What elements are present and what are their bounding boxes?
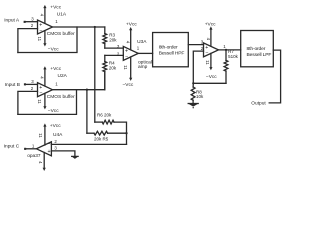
wire common vertical to U4A pin 2 <box>51 143 126 145</box>
op-amp U4A <box>36 142 51 156</box>
-Vcc supply U4A <box>43 153 46 172</box>
+Vcc supply U4A <box>43 123 46 145</box>
wire U1A feedback pin2-left <box>18 29 38 53</box>
resistor R3 <box>103 27 107 48</box>
resistor R6 <box>102 120 114 124</box>
wire Input B to U2A pin 3 <box>26 83 38 85</box>
svg-text:510k: 510k <box>228 54 239 59</box>
node U1A output junction <box>94 26 96 28</box>
+Vcc supply U2A <box>43 66 46 86</box>
svg-text:U2A: U2A <box>58 73 68 79</box>
svg-text:20k: 20k <box>109 66 117 71</box>
svg-text:8th-order: 8th-order <box>159 45 178 51</box>
svg-text:−Vcc: −Vcc <box>48 108 59 114</box>
svg-text:1: 1 <box>32 144 35 149</box>
svg-text:U4A: U4A <box>53 132 63 138</box>
input terminal C <box>24 148 26 150</box>
svg-text:−: − <box>39 28 42 34</box>
ground (U4A pin 3) <box>72 156 78 159</box>
wire U3A output to HPF <box>138 52 152 54</box>
svg-text:+Vcc: +Vcc <box>126 22 137 28</box>
wire U3A pin 2 <box>105 54 124 56</box>
svg-text:20k: 20k <box>109 37 117 42</box>
wire R5 right lead <box>108 132 127 134</box>
svg-text:amp: amp <box>138 65 148 70</box>
wire U4A pin 3 to ground <box>51 151 75 156</box>
svg-text:11: 11 <box>37 37 42 42</box>
-Vcc supply U1A <box>43 31 46 47</box>
wire LPF output <box>269 50 280 103</box>
block 8th-order Bessell HPF <box>153 33 189 67</box>
+Vcc supply U5A <box>209 26 212 46</box>
wire U4A output to Input C <box>26 148 36 150</box>
label optical amp (U3A) <box>138 60 152 71</box>
svg-text:1: 1 <box>55 82 58 87</box>
resistor R8 <box>191 83 195 103</box>
svg-text:−: − <box>48 142 51 148</box>
svg-text:3: 3 <box>31 16 34 21</box>
svg-text:1: 1 <box>55 19 58 24</box>
svg-text:CMOS buffer: CMOS buffer <box>47 94 75 100</box>
wire R5 left lead <box>87 132 94 134</box>
svg-text:−: − <box>39 91 42 97</box>
svg-text:2: 2 <box>31 86 34 91</box>
wire R6 left lead <box>95 121 102 123</box>
svg-text:2: 2 <box>54 139 57 144</box>
svg-text:opa37: opa37 <box>27 153 41 159</box>
-Vcc supply U3A <box>129 57 132 81</box>
svg-text:Input B: Input B <box>5 82 20 88</box>
wire U2A feedback pin2-left <box>18 91 38 114</box>
svg-text:3: 3 <box>54 145 57 150</box>
svg-text:Input C: Input C <box>4 144 20 150</box>
svg-text:11: 11 <box>38 133 43 138</box>
svg-text:+Vcc: +Vcc <box>205 22 216 28</box>
svg-text:+Vcc: +Vcc <box>50 66 61 72</box>
svg-text:+Vcc: +Vcc <box>50 123 61 129</box>
svg-text:4: 4 <box>39 76 44 79</box>
svg-text:1: 1 <box>223 44 226 49</box>
block 8th-order Bessell LPF <box>241 31 274 67</box>
svg-text:−Vcc: −Vcc <box>206 74 217 80</box>
wire Input A to U1A pin 3 <box>26 21 38 23</box>
wire U2A feedback bottom <box>18 90 77 115</box>
wire junction drop to R5 <box>86 90 88 134</box>
svg-text:20k R5: 20k R5 <box>94 137 109 142</box>
svg-text:1: 1 <box>137 45 140 50</box>
svg-text:R6 20k: R6 20k <box>97 112 112 117</box>
svg-text:2: 2 <box>31 23 34 28</box>
op-amp U5A <box>204 43 219 57</box>
+Vcc supply U1A <box>43 5 46 23</box>
-Vcc supply U5A <box>209 53 212 70</box>
+Vcc supply U3A <box>129 27 132 50</box>
svg-text:11: 11 <box>37 99 42 104</box>
svg-text:+Vcc: +Vcc <box>50 5 61 11</box>
node R8 top junction <box>192 82 194 84</box>
ground (R8) <box>188 104 198 109</box>
op-amp U3A <box>123 46 138 60</box>
svg-text:Output: Output <box>251 101 266 107</box>
svg-text:−: − <box>205 51 208 57</box>
input terminal B <box>24 83 26 85</box>
svg-text:U1A: U1A <box>57 11 67 17</box>
svg-text:3: 3 <box>31 79 34 84</box>
svg-text:CMOS buffer: CMOS buffer <box>47 31 75 37</box>
svg-text:−: − <box>125 54 128 60</box>
wire U5A output to LPF <box>219 49 241 51</box>
svg-text:Input A: Input A <box>4 18 20 24</box>
node U2A output junction <box>86 89 88 91</box>
svg-text:8th-order: 8th-order <box>247 46 266 52</box>
svg-text:4: 4 <box>126 41 131 44</box>
wire U1A feedback bottom <box>18 27 77 53</box>
resistor R5 <box>94 131 108 135</box>
wire R7 bottom to pin2 node <box>193 82 226 84</box>
wire U2A output <box>53 72 105 90</box>
node R5 junction <box>125 132 127 134</box>
op-amp U1A <box>38 20 53 34</box>
wire R6 right to common vertical <box>114 122 127 144</box>
svg-text:4: 4 <box>39 14 44 17</box>
resistor R4 <box>103 55 107 89</box>
wire U5A pin2 feedback <box>193 51 203 83</box>
resistor R7 <box>224 50 228 83</box>
wire HPF to U5A pin 3 <box>188 44 203 46</box>
svg-text:11: 11 <box>205 60 210 65</box>
svg-text:−Vcc: −Vcc <box>123 82 134 88</box>
svg-text:U3A: U3A <box>137 39 147 45</box>
svg-text:−Vcc: −Vcc <box>48 46 59 52</box>
node R7 top junction <box>225 49 227 51</box>
op-amp U2A <box>38 83 53 97</box>
wire U1A output <box>53 26 105 28</box>
svg-text:Bessell HPF: Bessell HPF <box>159 51 185 57</box>
wire junction drop to R6 <box>94 27 96 122</box>
svg-text:4: 4 <box>38 161 43 164</box>
svg-text:Bessell LPF: Bessell LPF <box>247 52 272 58</box>
input terminal A <box>24 21 26 23</box>
wire R3 to U3A pin 3 <box>105 47 124 49</box>
svg-text:+: + <box>48 149 51 155</box>
-Vcc supply U2A <box>43 94 46 110</box>
svg-text:10k: 10k <box>196 94 204 99</box>
svg-text:11: 11 <box>123 65 128 70</box>
